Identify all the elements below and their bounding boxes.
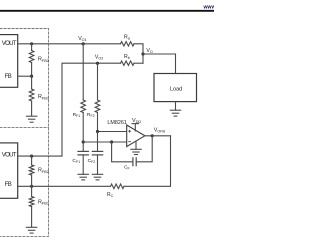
svg-text:RF1: RF1 xyxy=(73,112,81,118)
svg-text:Load: Load xyxy=(170,87,182,93)
regulator block 1 xyxy=(0,35,18,88)
wire RC to FB2 xyxy=(18,185,111,187)
wire non-inverting input xyxy=(98,131,127,133)
regulator 2 pin label FB xyxy=(5,182,12,188)
resistor RFB2 (bottom block) xyxy=(31,156,33,165)
resistor RC xyxy=(111,184,125,189)
node junction dot FB1 xyxy=(30,75,33,78)
capacitor CF1 xyxy=(78,151,88,155)
wire inverting input xyxy=(83,141,127,143)
wire RF2 bottom to non-inverting input xyxy=(97,113,99,132)
svg-text:LM8261: LM8261 xyxy=(107,120,126,126)
svg-text:RFB1: RFB1 xyxy=(38,94,49,100)
svg-text:Ra: Ra xyxy=(124,35,131,41)
wire to CF2 xyxy=(97,132,99,152)
svg-text:www: www xyxy=(203,4,215,10)
svg-text:FB: FB xyxy=(5,74,12,80)
svg-text:RFB2: RFB2 xyxy=(38,168,49,174)
wire RF1 bottom to inverting input xyxy=(82,113,84,143)
resistor RFB2 (top block) xyxy=(31,44,33,51)
capacitor CF2 xyxy=(92,151,102,155)
svg-text:VO2: VO2 xyxy=(95,54,103,60)
resistor Ra xyxy=(121,42,135,46)
wire VOUT1 to Ra xyxy=(18,43,121,45)
wire op-amp output xyxy=(145,135,171,137)
node VO2 xyxy=(96,62,99,65)
node junction dot RFB2 bottom block xyxy=(30,155,33,158)
node junction dot plus input xyxy=(96,130,99,133)
load box xyxy=(154,74,197,102)
svg-text:VOUT: VOUT xyxy=(2,152,17,159)
node VO1 xyxy=(82,42,85,45)
wire Rb to junction xyxy=(134,62,143,64)
op-amp minus sign xyxy=(129,141,131,143)
svg-text:RC: RC xyxy=(107,192,114,198)
ground (CF1) xyxy=(78,174,88,180)
svg-text:FB: FB xyxy=(5,182,12,188)
wire to CF1 xyxy=(82,142,84,151)
wire FB1 xyxy=(18,75,32,77)
capacitor CF xyxy=(133,158,136,166)
svg-text:VOUT: VOUT xyxy=(2,40,17,47)
ground (top block) xyxy=(26,116,36,122)
regulator 2 pin label VOUT xyxy=(2,152,17,159)
resistor RFB1 (bottom block) xyxy=(29,197,34,207)
ground (load) xyxy=(175,102,177,111)
regulator 1 pin label FB xyxy=(5,74,12,80)
resistor RF2 xyxy=(95,100,100,113)
wire feedback loop to CF xyxy=(136,136,152,162)
node junction dot feedback tap xyxy=(110,140,113,143)
node junction dot RF1/CF1 xyxy=(82,140,85,143)
op-amp U1 LM8261 xyxy=(127,125,145,147)
wire VO2 drop to RF2 xyxy=(97,63,99,100)
wire VO to load xyxy=(143,54,176,74)
svg-text:RFB1: RFB1 xyxy=(38,199,49,205)
wire VOFB down to RC xyxy=(124,136,171,187)
regulator block 2 xyxy=(0,143,18,198)
wire Ra to junction xyxy=(134,44,143,63)
ground (bottom block) xyxy=(26,227,36,233)
node VO xyxy=(141,52,144,55)
svg-text:CF2: CF2 xyxy=(88,158,96,164)
wire VOUT2 xyxy=(18,155,62,157)
regulator 1 pin label VOUT xyxy=(2,40,17,47)
wire VO1 drop to RF1 xyxy=(82,44,84,100)
resistor RF1 xyxy=(81,100,86,113)
dashed enclosure box xyxy=(0,29,49,237)
svg-text:VOFB: VOFB xyxy=(154,128,166,134)
resistor RFB1 (top block) xyxy=(29,89,34,101)
node junction dot FB2 xyxy=(30,185,33,188)
op-amp plus sign xyxy=(129,130,131,132)
svg-text:VO1: VO1 xyxy=(78,36,86,42)
wire VO2 run xyxy=(62,63,121,156)
www header text xyxy=(203,4,217,10)
wire CF to inverting tap xyxy=(112,142,133,162)
svg-text:RF2: RF2 xyxy=(87,112,95,118)
header rule xyxy=(0,10,214,12)
svg-text:RFB2: RFB2 xyxy=(38,57,49,63)
dashed divider xyxy=(0,126,49,128)
svg-text:Rb: Rb xyxy=(124,54,130,60)
power VDD symbol xyxy=(132,118,141,124)
node junction dot RFB2 top xyxy=(30,42,33,45)
resistor Rb xyxy=(121,61,135,65)
svg-text:VO: VO xyxy=(146,48,152,54)
svg-text:CF: CF xyxy=(124,165,130,171)
ground (CF2) xyxy=(92,174,102,180)
ground (op-amp) xyxy=(135,141,137,149)
node VOFB xyxy=(151,134,154,137)
svg-text:CF1: CF1 xyxy=(72,158,80,164)
